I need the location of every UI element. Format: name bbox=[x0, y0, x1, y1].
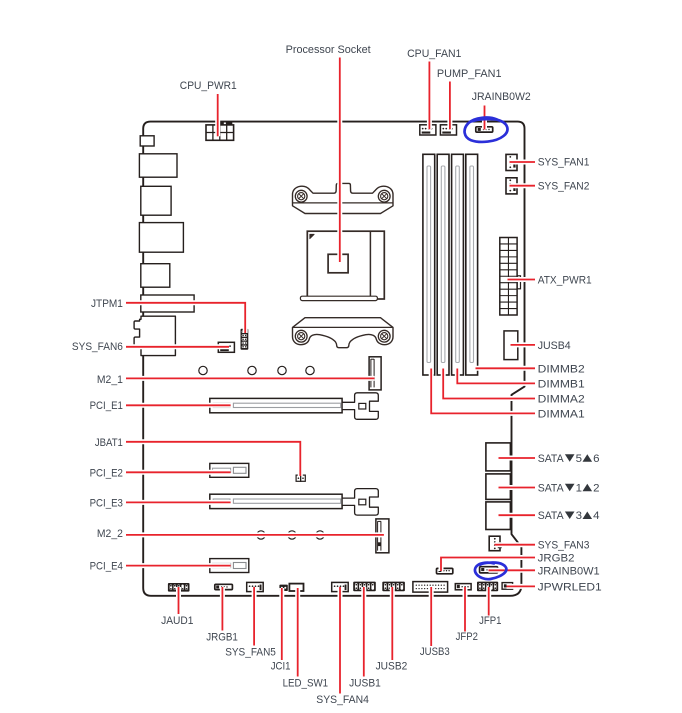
svg-text:JBAT1: JBAT1 bbox=[95, 437, 123, 449]
leader line JRGB2 bbox=[441, 558, 535, 572]
rear I/O port (USB block 2) bbox=[141, 186, 171, 215]
SATA ports SATA 5/6 bbox=[486, 443, 511, 471]
svg-text:SYS_FAN1: SYS_FAN1 bbox=[538, 157, 590, 169]
leader line SATA 1/2 bbox=[499, 485, 536, 490]
svg-text:M2_2: M2_2 bbox=[97, 528, 123, 540]
leader line JTPM1 bbox=[126, 303, 245, 333]
leader line JPWRLED1 bbox=[507, 584, 536, 589]
leader line SYS_FAN5 bbox=[252, 587, 257, 646]
connector JRAINBOW2 bbox=[476, 127, 493, 132]
jumper JBAT1 bbox=[296, 475, 301, 481]
leader line DIMMA2 bbox=[443, 369, 535, 399]
blue highlight circle around JRAINBOW1 bbox=[475, 563, 506, 580]
svg-text:JCI1: JCI1 bbox=[271, 660, 291, 672]
svg-text:JUSB4: JUSB4 bbox=[538, 340, 571, 352]
svg-text:SYS_FAN5: SYS_FAN5 bbox=[225, 646, 276, 658]
leader line SATA 5/6 bbox=[499, 456, 536, 461]
M.2 slot M2_2 bbox=[376, 519, 389, 553]
svg-text:6: 6 bbox=[593, 453, 599, 465]
svg-text:SYS_FAN4: SYS_FAN4 bbox=[316, 694, 369, 706]
leader line ATX_PWR1 bbox=[508, 277, 536, 282]
svg-text:JTPM1: JTPM1 bbox=[91, 298, 123, 310]
bracket screw (bottom-right) bbox=[378, 330, 390, 342]
svg-text:DIMMA1: DIMMA1 bbox=[538, 408, 585, 420]
svg-text:JFP1: JFP1 bbox=[479, 615, 501, 627]
svg-text:JUSB3: JUSB3 bbox=[420, 646, 450, 658]
leader line JUSB4 bbox=[511, 342, 536, 347]
rear I/O port (USB block 3) bbox=[141, 264, 170, 288]
leader line SATA 3/4 bbox=[499, 513, 536, 518]
connector ATX_PWR1 (24-pin) bbox=[517, 276, 520, 289]
svg-text:JRGB2: JRGB2 bbox=[538, 553, 575, 565]
leader line PCI_E1 bbox=[126, 403, 231, 408]
leader line JCI1 bbox=[279, 588, 284, 660]
memory slot DIMMA2 bbox=[437, 154, 449, 375]
leader line M2_2 bbox=[126, 532, 384, 537]
PCIe slot PCI_E1 (x16) bbox=[210, 398, 342, 412]
header JFP1 (front panel) bbox=[477, 582, 498, 592]
rear I/O audio jack block bbox=[134, 316, 175, 355]
leader line JAUD1 bbox=[176, 587, 181, 614]
leader line JBAT1 bbox=[126, 442, 300, 476]
SATA ports SATA 3/4 bbox=[486, 502, 511, 530]
header JUSB3 (USB-C front panel) bbox=[413, 582, 448, 593]
PCIe slot PCI_E2 (x1) bbox=[210, 463, 249, 477]
leader line JUSB3 bbox=[429, 587, 434, 646]
leader line JUSB1 bbox=[361, 587, 366, 677]
leader line PCI_E2 bbox=[126, 470, 231, 475]
memory slot DIMMA1 bbox=[423, 154, 435, 375]
svg-text:PCI_E3: PCI_E3 bbox=[90, 497, 123, 509]
leader line SYS_FAN6 bbox=[126, 344, 229, 349]
connector SYS_FAN1 bbox=[506, 154, 517, 170]
leader line JFP1 bbox=[486, 587, 491, 616]
bracket screw (bottom-left) bbox=[295, 330, 307, 342]
leader line JFP2 bbox=[463, 587, 468, 632]
PCIe slot PCI_E3 (x16) bbox=[210, 494, 342, 508]
connector JPWRLED1 bbox=[502, 583, 512, 590]
switch LED_SW1 bbox=[289, 584, 303, 591]
header JUSB1 (USB 2.0) bbox=[353, 582, 376, 592]
leader line M2_1 bbox=[126, 376, 375, 381]
leader line DIMMA1 bbox=[431, 369, 535, 414]
svg-text:JFP2: JFP2 bbox=[456, 631, 478, 643]
header JUSB2 (USB 2.0) bbox=[382, 582, 405, 592]
bracket screw (top-right) bbox=[378, 190, 390, 202]
memory slot DIMMB1 bbox=[452, 154, 464, 375]
svg-text:SATA: SATA bbox=[538, 510, 564, 522]
connector SYS_FAN3 bbox=[489, 536, 500, 551]
svg-text:4: 4 bbox=[593, 510, 599, 522]
leader line SYS_FAN1 bbox=[510, 160, 536, 165]
M.2 standoff holes (row 2) bbox=[257, 531, 265, 539]
svg-text:SATA: SATA bbox=[538, 483, 564, 495]
svg-text:JRAINB0W2: JRAINB0W2 bbox=[472, 91, 531, 103]
svg-text:SYS_FAN2: SYS_FAN2 bbox=[538, 181, 590, 193]
svg-text:CPU_FAN1: CPU_FAN1 bbox=[407, 48, 461, 60]
svg-text:1: 1 bbox=[576, 483, 582, 495]
svg-text:M2_1: M2_1 bbox=[97, 374, 123, 386]
leader line CPU_FAN1 bbox=[427, 62, 432, 130]
leader line JRAINBOW1 bbox=[489, 568, 536, 573]
leader line PCI_E4 bbox=[126, 563, 231, 568]
svg-text:PCI_E2: PCI_E2 bbox=[90, 467, 123, 479]
rear I/O port (USB block 1) bbox=[139, 154, 177, 177]
leader line Processor Socket bbox=[337, 58, 342, 263]
connector JRGB1 bbox=[215, 584, 233, 589]
rear I/O port (PS/2 small) bbox=[140, 136, 154, 146]
header JTPM1 (2x5 pins) bbox=[241, 329, 249, 350]
leader line LED_SW1 bbox=[295, 588, 300, 677]
header JCI1 (chassis intrusion) bbox=[279, 585, 287, 591]
CPU socket (AM4) bbox=[307, 231, 384, 299]
svg-text:JRGB1: JRGB1 bbox=[206, 631, 238, 643]
connector JUSB4 bbox=[504, 331, 518, 360]
leader line PUMP_FAN1 bbox=[447, 82, 452, 130]
rear I/O port (LAN/USB block) bbox=[139, 223, 183, 253]
svg-text:PCI_E4: PCI_E4 bbox=[90, 561, 123, 573]
svg-text:2: 2 bbox=[593, 483, 599, 495]
svg-text:CPU_PWR1: CPU_PWR1 bbox=[180, 80, 237, 92]
memory slot DIMMB2 bbox=[466, 154, 478, 375]
svg-text:ATX_PWR1: ATX_PWR1 bbox=[538, 275, 592, 287]
leader line JUSB2 bbox=[390, 587, 395, 660]
socket pin-1 mark bbox=[310, 234, 314, 238]
M.2 slot M2_1 bbox=[369, 357, 381, 390]
CPU cooler bracket (top) bbox=[293, 183, 394, 213]
connector SYS_FAN2 bbox=[506, 178, 517, 194]
leader line SYS_FAN3 bbox=[495, 542, 536, 547]
connector CPU_FAN1 bbox=[420, 125, 436, 135]
svg-text:PUMP_FAN1: PUMP_FAN1 bbox=[437, 68, 502, 80]
connector JRGB2 bbox=[437, 568, 453, 573]
connector SYS_FAN6 bbox=[218, 342, 234, 352]
svg-text:LED_SW1: LED_SW1 bbox=[283, 677, 329, 689]
svg-text:JRAINB0W1: JRAINB0W1 bbox=[538, 565, 600, 577]
svg-text:DIMMB1: DIMMB1 bbox=[538, 378, 585, 390]
svg-text:JUSB1: JUSB1 bbox=[349, 677, 381, 689]
PCIe slot PCI_E4 (x1) bbox=[210, 559, 249, 573]
socket lever bar bbox=[300, 296, 377, 300]
blue highlight circle around JRAINBOW2 bbox=[465, 118, 508, 142]
leader line DIMMB2 bbox=[476, 366, 536, 371]
svg-text:JAUD1: JAUD1 bbox=[161, 615, 193, 627]
header JFP2 bbox=[455, 584, 471, 590]
rear I/O port (wide HDMI) bbox=[141, 295, 194, 312]
M.2 standoff holes (row 1) bbox=[199, 366, 207, 374]
svg-text:5: 5 bbox=[576, 453, 582, 465]
connector JRAINBOW1 bbox=[480, 567, 498, 573]
SATA ports SATA 1/2 bbox=[486, 474, 511, 500]
svg-text:SYS_FAN3: SYS_FAN3 bbox=[538, 540, 590, 552]
connector PUMP_FAN1 bbox=[440, 125, 456, 135]
svg-text:DIMMB2: DIMMB2 bbox=[538, 363, 585, 375]
leader line CPU_PWR1 bbox=[215, 94, 220, 136]
motherboard outline bbox=[143, 122, 524, 596]
svg-text:DIMMA2: DIMMA2 bbox=[538, 394, 585, 406]
svg-text:3: 3 bbox=[576, 510, 582, 522]
leader line SYS_FAN2 bbox=[510, 183, 536, 188]
svg-text:SATA: SATA bbox=[538, 453, 564, 465]
connector SYS_FAN5 bbox=[247, 582, 264, 591]
leader line SYS_FAN4 bbox=[338, 587, 343, 694]
svg-text:PCI_E1: PCI_E1 bbox=[90, 400, 123, 412]
svg-text:Processor Socket: Processor Socket bbox=[286, 44, 372, 56]
leader line JRAINBOW2 bbox=[482, 106, 487, 130]
leader line JRGB1 bbox=[220, 587, 225, 631]
socket center key square bbox=[328, 254, 348, 272]
leader line DIMMB1 bbox=[457, 369, 535, 384]
CPU cooler bracket (bottom) bbox=[293, 318, 394, 348]
leader line PCI_E3 bbox=[126, 500, 231, 505]
bracket screw (top-left) bbox=[295, 190, 307, 202]
svg-text:JPWRLED1: JPWRLED1 bbox=[538, 581, 602, 593]
header JAUD1 (front audio) bbox=[168, 583, 190, 592]
connector CPU_PWR1 (8-pin EPS) bbox=[216, 122, 224, 125]
svg-text:JUSB2: JUSB2 bbox=[376, 660, 408, 672]
svg-text:SYS_FAN6: SYS_FAN6 bbox=[72, 341, 123, 353]
connector SYS_FAN4 bbox=[332, 582, 349, 591]
